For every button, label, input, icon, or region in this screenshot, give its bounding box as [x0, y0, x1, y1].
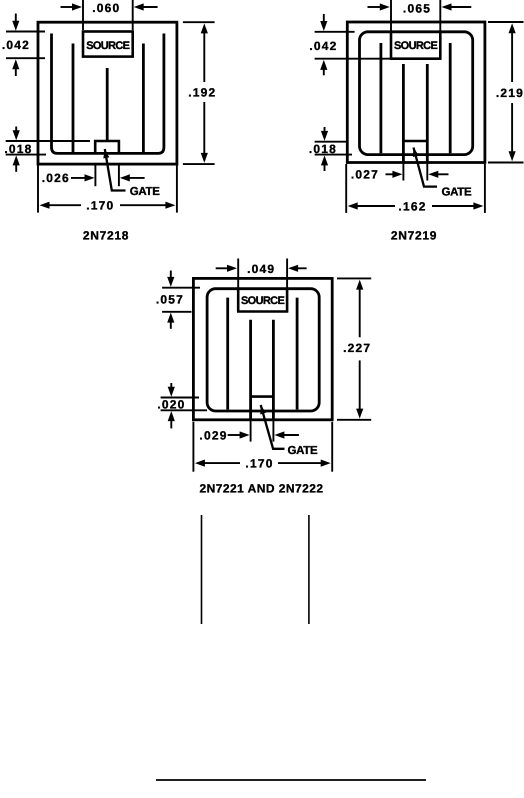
svg-text:.029: .029 [199, 428, 227, 442]
svg-text:GATE: GATE [287, 445, 318, 457]
svg-text:.192: .192 [188, 86, 216, 100]
svg-text:.018: .018 [4, 142, 32, 156]
svg-text:.227: .227 [343, 341, 371, 355]
svg-text:.042: .042 [2, 38, 30, 52]
svg-text:GATE: GATE [441, 187, 472, 199]
svg-text:2N7219: 2N7219 [391, 228, 437, 242]
svg-text:GATE: GATE [130, 186, 161, 198]
svg-text:.042: .042 [309, 39, 337, 53]
svg-text:2N7218: 2N7218 [83, 228, 129, 242]
svg-text:.026: .026 [42, 171, 70, 185]
svg-text:2N7221 AND 2N7222: 2N7221 AND 2N7222 [200, 482, 324, 496]
svg-text:.057: .057 [156, 292, 184, 306]
svg-text:.170: .170 [245, 456, 273, 470]
svg-text:.020: .020 [157, 397, 185, 411]
svg-text:.018: .018 [309, 142, 337, 156]
svg-text:SOURCE: SOURCE [241, 295, 284, 307]
svg-text:.065: .065 [403, 2, 431, 16]
svg-text:.162: .162 [398, 199, 426, 213]
svg-text:.060: .060 [92, 1, 120, 15]
svg-text:.049: .049 [247, 262, 275, 276]
svg-text:.170: .170 [86, 199, 114, 213]
svg-text:.219: .219 [496, 86, 524, 100]
svg-text:.027: .027 [351, 168, 379, 182]
svg-text:SOURCE: SOURCE [86, 40, 129, 52]
svg-text:SOURCE: SOURCE [394, 40, 437, 52]
